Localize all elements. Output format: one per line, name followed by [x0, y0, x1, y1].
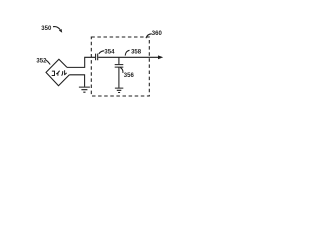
svg-text:360: 360: [152, 31, 163, 37]
svg-text:356: 356: [124, 73, 135, 79]
svg-text:358: 358: [131, 49, 142, 55]
svg-text:350: 350: [41, 26, 52, 32]
svg-text:352: 352: [36, 59, 47, 65]
svg-text:354: 354: [104, 50, 115, 56]
